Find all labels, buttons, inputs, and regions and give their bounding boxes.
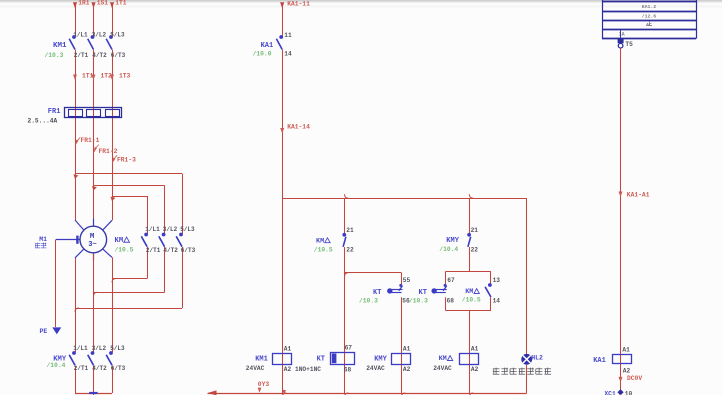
svg-text:1T3: 1T3 [119,72,131,79]
svg-text:4/T2: 4/T2 [163,247,178,254]
svg-text:1A: 1A [619,32,625,38]
svg-text:21: 21 [346,227,354,234]
svg-text:1/L1: 1/L1 [73,345,88,352]
svg-text:/10.5: /10.5 [462,297,481,304]
svg-text:0Y3: 0Y3 [258,381,270,388]
svg-text:/10.3: /10.3 [359,297,378,304]
svg-text:A2: A2 [403,366,411,373]
svg-text:XC1: XC1 [604,391,616,395]
svg-text:M1: M1 [39,236,47,243]
svg-text:2/T1: 2/T1 [146,247,161,254]
svg-text:FR1: FR1 [48,108,61,116]
svg-text:11: 11 [284,32,292,39]
svg-text:2.5...4A: 2.5...4A [28,118,58,125]
svg-text:5/L3: 5/L3 [110,345,125,352]
svg-text:4/T2: 4/T2 [92,52,107,59]
svg-text:KA1-A1: KA1-A1 [627,191,650,198]
svg-text:KT: KT [373,289,381,297]
svg-text:/10.0: /10.0 [253,51,272,58]
svg-text:/10.5: /10.5 [314,247,333,254]
svg-text:3/L2: 3/L2 [92,32,107,39]
svg-text:1NO+1NC: 1NO+1NC [295,366,321,373]
svg-text:KA1: KA1 [261,42,274,50]
svg-text:2/T1: 2/T1 [74,52,89,59]
svg-text:/10.3: /10.3 [45,52,64,59]
svg-text:67: 67 [447,277,455,284]
svg-text:A1: A1 [284,346,292,353]
svg-text:FR1-1: FR1-1 [81,137,100,144]
svg-text:6/T3: 6/T3 [181,247,196,254]
svg-text:55: 55 [403,277,411,284]
svg-text:A1: A1 [622,346,630,353]
svg-text:3~: 3~ [88,241,96,249]
svg-text:14: 14 [284,50,292,57]
svg-text:KM: KM [465,288,473,296]
svg-text:6/T3: 6/T3 [111,365,126,372]
svg-text:22: 22 [346,246,354,253]
svg-text:13: 13 [493,277,501,284]
svg-text:24VAC: 24VAC [246,365,265,372]
svg-text:KA1-11: KA1-11 [287,0,310,7]
svg-text:HL2: HL2 [531,355,543,362]
svg-text:/12.6: /12.6 [642,13,657,19]
svg-text:10: 10 [625,391,633,395]
svg-text:/10.4: /10.4 [439,246,458,253]
svg-text:22: 22 [471,246,479,253]
svg-text:1/L1: 1/L1 [73,32,88,39]
svg-text:2/T1: 2/T1 [74,365,89,372]
svg-text:KM: KM [115,237,124,245]
svg-text:A1: A1 [471,346,479,353]
svg-text:KM: KM [439,355,447,363]
svg-text:A2: A2 [471,366,479,373]
svg-text:PE: PE [40,328,48,335]
svg-text:24VAC: 24VAC [433,365,452,372]
svg-text:A2: A2 [284,366,292,373]
svg-text:1T1: 1T1 [115,0,127,6]
svg-text:KA1: KA1 [593,357,606,365]
svg-text:KMY: KMY [446,237,459,245]
svg-text:6/T3: 6/T3 [111,52,126,59]
svg-text:1T2: 1T2 [101,72,113,79]
svg-text:3/L2: 3/L2 [163,226,178,233]
svg-text:KA1.2: KA1.2 [642,4,657,10]
svg-text:1/L1: 1/L1 [145,226,160,233]
svg-text:A1: A1 [403,346,411,353]
svg-text:FR1-2: FR1-2 [99,148,118,155]
svg-text:68: 68 [447,297,455,304]
svg-text:21: 21 [471,227,479,234]
svg-text:5/L3: 5/L3 [110,32,125,39]
svg-text:3/L2: 3/L2 [92,345,107,352]
svg-text:KMY: KMY [374,355,387,363]
svg-text:M: M [90,233,95,241]
svg-text:KM1: KM1 [255,355,268,363]
svg-text:24VAC: 24VAC [366,365,385,372]
svg-text:KM1: KM1 [53,42,67,50]
svg-text:/10.4: /10.4 [47,362,66,369]
svg-text:KM: KM [316,237,324,245]
svg-text:T5: T5 [625,41,633,48]
svg-text:FR1-3: FR1-3 [117,156,136,163]
svg-text:1R1: 1R1 [78,0,90,6]
svg-text:/10.5: /10.5 [115,246,134,253]
svg-text:5/L3: 5/L3 [180,226,195,233]
svg-text:KT: KT [419,289,427,297]
svg-text:A2: A2 [623,367,631,374]
svg-text:DC0V: DC0V [627,375,642,382]
svg-text:68: 68 [344,367,352,374]
svg-text:KT: KT [317,355,325,363]
svg-text:1T1: 1T1 [82,72,94,79]
svg-text:67: 67 [345,344,353,351]
svg-text:KA1-14: KA1-14 [287,124,310,131]
svg-text:/10.3: /10.3 [409,297,428,304]
svg-text:14: 14 [493,298,501,305]
svg-text:1S1: 1S1 [97,0,109,6]
svg-text:4/T2: 4/T2 [92,365,107,372]
